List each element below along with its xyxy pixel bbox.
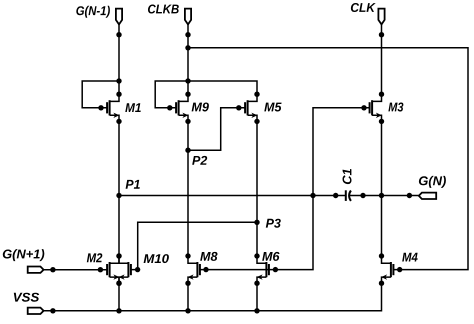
wire CLKB column: [185, 24, 190, 94]
label M3: [388, 103, 403, 112]
wire M9 source to P2 to M8 drain: [187, 121, 189, 255]
wire P3 to M10 gate: [131, 222, 257, 272]
label C1: [343, 169, 352, 184]
node P3: [254, 220, 259, 225]
wire M8 source to VSS: [187, 283, 189, 311]
label M10: [144, 254, 169, 263]
wire P2 to M5 gate: [188, 105, 245, 150]
label G(N+1): [3, 249, 45, 261]
label G(N): [419, 176, 446, 188]
port G(N): [419, 193, 436, 199]
transistor M5: [245, 92, 260, 125]
label G(N-1): [76, 6, 110, 18]
port CLKB: [185, 9, 191, 25]
wire capacitor right plate to G(N) port: [350, 193, 419, 198]
label P1: [126, 180, 140, 189]
port G(N-1): [116, 9, 122, 25]
label M8: [200, 252, 217, 261]
wire M9 gate loop / M5 drain link: [155, 81, 257, 111]
wire M2-M10 source to VSS: [118, 283, 120, 311]
wire M3 source to M4 drain: [381, 121, 383, 255]
node P1: [116, 193, 121, 198]
label M9: [192, 103, 209, 112]
label CLK: [351, 3, 376, 12]
label M2: [87, 253, 103, 262]
transistor M1: [107, 92, 122, 125]
label P2: [192, 156, 207, 165]
wire CLK column to M3 drain: [379, 24, 384, 94]
label P3: [266, 219, 281, 228]
label CLKB: [148, 5, 179, 14]
port VSS: [28, 308, 44, 314]
wire G(N-1) column to M1 drain: [116, 24, 121, 94]
label VSS: [14, 293, 39, 302]
capacitor C1: [346, 190, 351, 201]
transistor M9: [176, 92, 191, 125]
wire M3 gate net to P1, M6 gate, M8 gate: [200, 105, 370, 272]
wire G(N+1) to M2 gate: [44, 267, 108, 272]
transistor M10: [116, 253, 131, 286]
wire M5 source to P3 to M6 drain: [256, 121, 258, 255]
label M5: [264, 103, 281, 112]
transistor M8: [185, 253, 200, 286]
port G(N+1): [28, 267, 44, 273]
node P2: [185, 148, 190, 153]
wire M1 source to M2-M10 drain: [118, 121, 120, 255]
label M4: [402, 253, 418, 262]
port CLK: [378, 9, 384, 25]
wire VSS rail: [44, 283, 382, 313]
wire M6 source to VSS: [256, 283, 258, 311]
transistor M6: [254, 253, 269, 286]
wire M1 diode loop drain-to-gate: [82, 78, 122, 110]
wire CLKB branch to right edge and M4 gate: [188, 48, 468, 272]
label M1: [125, 103, 141, 112]
transistor M3: [370, 92, 385, 125]
transistor M4: [379, 253, 394, 286]
transistor M2: [107, 253, 122, 286]
wire P1 to capacitor left plate: [119, 193, 346, 198]
label M6: [262, 252, 279, 261]
